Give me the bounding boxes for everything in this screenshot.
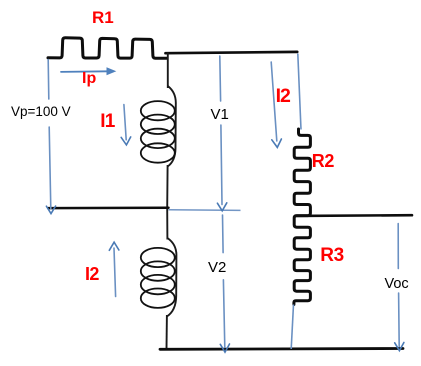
label V1 <box>209 106 231 123</box>
inductor L2 coil turn 2 <box>141 261 175 280</box>
arrow Ip (horizontal, filled head right) <box>61 67 116 75</box>
inductor L1 coil turn 1 <box>141 101 175 120</box>
inductor L2 coil turn 3 <box>141 275 175 294</box>
inductor L2 coil turn 4 <box>141 289 175 308</box>
inductor L1 coil turn 3 <box>141 129 175 148</box>
label R2 <box>312 151 334 172</box>
inductor L1 coil turn 2 <box>141 115 175 134</box>
arrow I2 lower (up) <box>109 242 119 296</box>
inductor L1 coil turn 4 <box>141 143 175 162</box>
wire arc right of inductor L2 <box>167 238 177 317</box>
wire center vertical middle (L1 bottom through middle node to L2 top) <box>166 165 168 240</box>
label I2 upper <box>276 85 290 108</box>
label I2 lower <box>85 264 99 285</box>
resistor R1 <box>48 38 167 59</box>
label Ip <box>82 70 96 88</box>
label I1 <box>100 111 114 133</box>
inductor L2 coil turn 1 <box>141 248 175 267</box>
wire middle rail right (R2/R3 tap to right edge) <box>297 214 413 217</box>
label R3 <box>320 245 344 267</box>
arrow I1 (down) <box>121 105 131 145</box>
wire middle stub blue (node to x=240) <box>169 209 241 212</box>
wire center vertical upper (top wire down to inductor L1) <box>167 53 169 89</box>
arrow Voc (down, head at bottom rail) <box>395 224 404 351</box>
label Vp=100 V <box>10 104 72 119</box>
arrow Vp source (left branch, head down at middle rail) <box>46 60 55 214</box>
label V2 <box>206 259 228 276</box>
wire center vertical lower (L2 bottom to bottom rail) <box>166 315 168 349</box>
wire blue below R3 to bottom rail <box>291 305 293 350</box>
wire blue vertical (top wire down to R2) <box>298 54 301 130</box>
wire top (R1 to node at x=297) <box>166 52 298 53</box>
label Voc <box>384 276 410 292</box>
arrow I2 upper (down) <box>271 62 281 147</box>
wire bottom rail <box>160 347 403 351</box>
resistor R2 and resistor R3 column <box>294 129 311 305</box>
wire middle rail left (black) <box>48 206 168 209</box>
wire arc right of inductor L1 <box>168 86 176 167</box>
arrow V1 (down, head at middle) <box>217 56 226 211</box>
arrow V2 (down, head at bottom rail) <box>220 215 229 352</box>
label R1 <box>92 8 114 28</box>
